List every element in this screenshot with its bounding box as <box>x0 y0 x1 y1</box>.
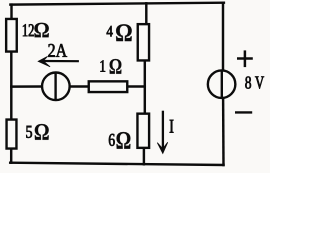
label V <box>255 77 264 89</box>
resistor 12-ohm body <box>6 19 17 52</box>
wire right vertical lower <box>222 98 225 166</box>
voltage source internal bar (wire through) <box>221 71 223 98</box>
label ohm of 6 <box>117 132 131 149</box>
current source 2A circle <box>42 73 70 101</box>
wire top horizontal <box>10 3 224 5</box>
label 2A <box>48 44 67 57</box>
wire 1-ohm to node T <box>128 85 145 87</box>
wire bottom horizontal <box>10 163 223 165</box>
label ohm of 1 <box>110 59 122 74</box>
current arrow I (pointing down) <box>157 111 167 154</box>
label 1 <box>101 60 106 71</box>
wire left-bottom (5-ohm to bottom wire) <box>10 149 12 162</box>
label I <box>170 120 174 133</box>
resistor 4-ohm body <box>138 24 149 60</box>
wire current source to 1-ohm <box>70 85 88 87</box>
resistor 6-ohm body <box>137 114 149 148</box>
current arrow 2A (pointing left) <box>38 56 79 66</box>
resistor 1-ohm body <box>89 81 128 92</box>
label ohm of 5 <box>35 124 49 140</box>
wire top of middle vertical branch into 4-ohm <box>145 3 147 24</box>
minus sign of voltage source <box>235 111 252 113</box>
label ohm of 12 <box>34 23 48 38</box>
wire 6-ohm to bottom wire <box>143 149 145 165</box>
wire left middle (12-ohm to 5-ohm through node) <box>10 53 12 120</box>
label 6 <box>109 134 115 146</box>
label 5 <box>26 126 32 138</box>
resistor 5-ohm body <box>7 120 17 149</box>
wire left-top vertical into 12-ohm <box>10 5 12 19</box>
label 8 <box>245 77 251 89</box>
wire right vertical upper <box>222 3 224 71</box>
label 4 <box>107 26 113 36</box>
wire 4-ohm to 6-ohm (through node T) <box>144 61 146 113</box>
current source internal bar <box>54 73 56 101</box>
label 12 <box>23 24 34 36</box>
wire middle branch: node to current source <box>11 85 42 88</box>
voltage source 8V circle <box>208 70 236 98</box>
plus sign of voltage source <box>237 50 253 67</box>
label ohm of 4 <box>116 24 132 41</box>
